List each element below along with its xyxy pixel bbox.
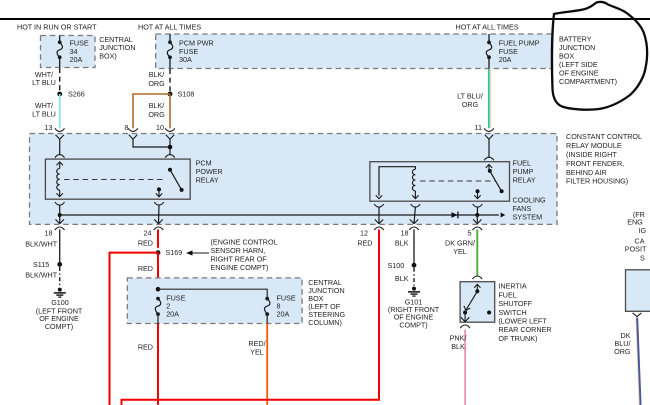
wire DK BLU/ORG down: [636, 318, 639, 405]
svg-text:(LOWER LEFT: (LOWER LEFT: [498, 317, 547, 326]
wire K2 output to bus node: [476, 207, 478, 215]
svg-text:10: 10: [156, 123, 164, 132]
svg-text:(INSIDE RIGHT: (INSIDE RIGHT: [566, 150, 617, 159]
pin 12 exit arc below module: [374, 227, 384, 230]
svg-text:FILTER HOUSING): FILTER HOUSING): [566, 177, 628, 186]
wire pin10 down to PCM relay: [169, 139, 171, 155]
wire BLK/WHT pin18L to S115: [59, 230, 61, 265]
pin 8 connector cup: [128, 128, 138, 131]
wire K1 output to pin 24: [158, 205, 161, 224]
svg-text:COLUMN): COLUMN): [308, 318, 342, 327]
wire BLK/WHT S115 to G100 (dash-dot): [59, 267, 61, 287]
wire BLK S100 to G101 (dash-dot): [413, 268, 415, 286]
svg-text:INERTIA: INERTIA: [498, 282, 526, 291]
svg-text:20A: 20A: [166, 310, 179, 319]
connector C? box right edge: [626, 270, 650, 312]
pin 13 connector cup: [55, 128, 65, 131]
K1 switch output contact: [157, 187, 161, 191]
fuse FUEL PUMP wire stub top: [488, 34, 490, 42]
K1 switch common contact: [168, 168, 172, 172]
svg-text:SYSTEM: SYSTEM: [513, 212, 543, 221]
inertia switch top contact: [475, 289, 479, 293]
svg-text:5: 5: [468, 229, 472, 238]
svg-text:BLK: BLK: [395, 274, 409, 283]
svg-text:BLK: BLK: [395, 239, 409, 248]
wire RED pin24 to S169: [157, 230, 159, 253]
K2 switch entry arrow (up): [486, 165, 492, 170]
K2 switch blade: [490, 171, 502, 191]
pin 18R exit arc below module: [409, 227, 419, 230]
constant control relay module dashed enclosure: [30, 134, 558, 225]
wire BLK pin18R to S100: [413, 230, 415, 266]
fuse F2: [156, 297, 160, 301]
svg-text:FUEL: FUEL: [498, 290, 516, 299]
relay K1 PCM POWER RELAY box: [45, 159, 190, 199]
pin 8 male chevron inside module: [129, 135, 137, 140]
K1 coil exit arc below box: [55, 202, 65, 205]
svg-text:LT BLU: LT BLU: [32, 78, 56, 87]
svg-text:RELAY: RELAY: [196, 176, 219, 185]
wire RED branch S169 left and down: [110, 253, 159, 405]
pin 18L exit arc below module: [55, 227, 65, 230]
wire RED pin12 down and across bottom: [122, 230, 380, 405]
wire K2 coil to pin 18: [414, 207, 415, 224]
inertia switch exit arc below box: [460, 325, 470, 328]
svg-text:OF TRUNK): OF TRUNK): [498, 334, 537, 343]
pin 10 male chevron inside module: [166, 135, 174, 140]
ground G100: [58, 288, 62, 292]
svg-text:IG: IG: [639, 226, 647, 235]
K1 mechanical link (dashed): [64, 179, 164, 181]
wire pin11 to fuel pump relay: [488, 139, 490, 158]
svg-text:REAR CORNER: REAR CORNER: [498, 325, 551, 334]
relay K2 FUEL PUMP RELAY box: [370, 162, 510, 202]
K1 coil entry arrow (up): [57, 162, 63, 169]
inertia switch blade with arrow: [466, 291, 477, 309]
svg-text:SWITCH: SWITCH: [498, 308, 526, 317]
K2 output arrow (down): [474, 193, 480, 199]
splice node S100: [412, 263, 417, 268]
svg-text:COMPT): COMPT): [45, 322, 73, 331]
splice node S108: [168, 92, 173, 97]
wire pin8 L to junction: [133, 139, 170, 147]
svg-text:COMPT): COMPT): [399, 321, 427, 330]
wire RED S169 down to CJB: [157, 253, 159, 278]
K2 switch common contact: [488, 169, 492, 173]
inertia fuel shutoff switch box: [460, 282, 495, 323]
svg-text:ORG: ORG: [148, 110, 165, 119]
bus arrow to cooling fans: [501, 213, 506, 218]
pin 13 male chevron inside module: [56, 135, 64, 140]
fuse F34: [58, 40, 62, 44]
pin 11 connector cup: [484, 128, 494, 131]
K2 feed exit arc below box: [374, 204, 384, 207]
svg-text:20A: 20A: [499, 55, 512, 64]
inertia switch lower contact: [463, 311, 467, 315]
svg-text:COMPARTMENT): COMPARTMENT): [559, 77, 617, 86]
svg-text:12: 12: [360, 229, 368, 238]
K1 output arrow (down): [156, 191, 162, 197]
fuse PCM PWR: [168, 40, 172, 44]
wire fuse2 to CJB box bottom: [157, 314, 159, 323]
pin 11 male chevron inside module: [485, 135, 493, 140]
pin 5 exit arc below module: [473, 227, 483, 230]
wire RED/YEL fuse8 down to bottom (orange): [266, 324, 268, 405]
wire fuse8 to CJB box bottom: [266, 314, 268, 323]
wire LT BLU/ORG fuse to pin 11 (teal w/ orange stripe): [489, 69, 491, 129]
wire bus node to pin 5: [476, 215, 478, 224]
inertia switch entry arrow (up): [474, 284, 480, 291]
K2 coil exit arrow (down): [412, 191, 418, 199]
svg-text:LT BLU: LT BLU: [32, 110, 56, 119]
svg-text:S115: S115: [33, 260, 49, 269]
fuse FUEL PUMP wire stub bottom: [488, 57, 490, 68]
wire pin13 to PCM relay: [59, 139, 61, 155]
wire K1 coil to bus/pin18: [59, 205, 61, 224]
svg-text:ENGINE COMPT): ENGINE COMPT): [211, 263, 269, 272]
svg-text:BLK: BLK: [451, 342, 465, 351]
wire CJB internal feed to fuse 2: [157, 278, 159, 299]
svg-text:30A: 30A: [179, 55, 192, 64]
svg-text:YEL: YEL: [250, 348, 264, 357]
K1 coil: [57, 169, 60, 191]
svg-text:RED: RED: [138, 264, 153, 273]
svg-text:BLK/WHT: BLK/WHT: [25, 240, 58, 249]
pin 18L exit chevron: [56, 219, 64, 223]
K2 feed exit arrow (down): [376, 195, 382, 198]
wire BLK/ORG S108 to pin 10 (brown): [169, 94, 171, 128]
K2 mechanical link (dashed): [420, 180, 495, 182]
node junction pin8/pin10: [168, 145, 173, 150]
inertia switch entry arc: [473, 276, 483, 279]
svg-text:FRONT FENDER,: FRONT FENDER,: [566, 159, 624, 168]
wire RED fuse2 down to bottom: [157, 324, 159, 405]
svg-text:24: 24: [144, 229, 152, 238]
K2 coil exit arc below box: [411, 204, 421, 207]
node bus junction pin 5: [475, 213, 479, 217]
splice node S266: [57, 92, 62, 97]
splice node S115: [57, 262, 62, 267]
svg-text:13: 13: [45, 123, 53, 132]
pin 24 exit chevron: [154, 219, 162, 223]
pin 10 connector cup: [165, 128, 175, 131]
wire BLK/ORG S108 to pin 8 (brown L): [133, 94, 170, 128]
K2 switch entry arc: [484, 157, 494, 160]
K2 coil: [412, 169, 415, 191]
callout ENGINE CONTROL SENSOR HARN arrow: [188, 252, 209, 254]
fuse PCM PWR wire stub top: [169, 34, 171, 42]
PCM relay switch entry arc: [165, 155, 175, 158]
central junction box (bottom) dashed enclosure: [127, 278, 302, 324]
svg-text:ORG: ORG: [614, 347, 631, 356]
svg-text:8: 8: [125, 123, 129, 132]
node bus junction below K1 coil: [58, 213, 62, 217]
svg-text:18: 18: [45, 229, 53, 238]
svg-text:HOT IN RUN OR START: HOT IN RUN OR START: [17, 23, 97, 32]
battery junction box callout blob: [552, 2, 647, 110]
svg-text:20A: 20A: [277, 310, 290, 319]
wire WHT/LT BLU S266 to pin 13 (light blue): [59, 94, 61, 128]
pin 24 exit arc below module: [154, 227, 164, 230]
fuse F34 wire stub top: [59, 36, 61, 43]
svg-text:G100: G100: [51, 298, 69, 307]
svg-text:HOT AT ALL TIMES: HOT AT ALL TIMES: [456, 23, 519, 32]
fuse PCM PWR wire stub bottom: [169, 57, 171, 68]
svg-text:S169: S169: [166, 248, 183, 257]
svg-text:BEHIND AIR: BEHIND AIR: [566, 168, 607, 177]
inertia switch exit chevron: [461, 315, 469, 322]
wire K2 feed to pin 12: [378, 207, 380, 224]
svg-text:ENG: ENG: [627, 217, 643, 226]
svg-text:BLK/: BLK/: [149, 70, 165, 79]
wire branch to fuse 8: [158, 289, 267, 298]
svg-text:RED: RED: [138, 239, 153, 248]
diode D1 on bus: [452, 212, 458, 218]
svg-text:18: 18: [401, 229, 409, 238]
wire PNK/BLK inertia switch down: [464, 330, 466, 405]
K1 output exit arc below box: [154, 202, 164, 205]
svg-text:RED: RED: [138, 343, 153, 352]
svg-text:11: 11: [475, 123, 482, 132]
svg-text:RED: RED: [357, 239, 372, 248]
splice node S169: [153, 248, 163, 258]
svg-text:RELAY: RELAY: [513, 176, 536, 185]
right box exit chevron: [633, 313, 642, 317]
fuse FUEL PUMP: [487, 41, 491, 45]
svg-text:20A: 20A: [70, 55, 83, 64]
svg-text:S266: S266: [68, 90, 85, 99]
top rule: [0, 18, 650, 20]
internal ground/feed bus wire: [60, 214, 499, 216]
wire BLK/ORG fuse to S108 (dashed black): [169, 69, 171, 94]
svg-text:POSIT: POSIT: [625, 245, 647, 254]
pin 5 exit chevron: [473, 219, 481, 223]
svg-text:CONSTANT CONTROL: CONSTANT CONTROL: [566, 132, 642, 141]
svg-text:HOT AT ALL TIMES: HOT AT ALL TIMES: [138, 23, 201, 32]
svg-text:BLK/: BLK/: [149, 101, 165, 110]
svg-text:S108: S108: [178, 90, 195, 99]
PCM relay top-left entry arc: [55, 155, 65, 158]
svg-text:ORG: ORG: [148, 79, 165, 88]
K2 coil top wire L: [379, 167, 415, 196]
pin 18R exit chevron: [410, 219, 418, 223]
K2 output exit arc below box: [473, 204, 483, 207]
battery junction box dashed enclosure: [156, 34, 552, 69]
wire DK GRN/YEL pin5 to inertia switch: [476, 230, 478, 277]
K1 coil exit arrow (down): [57, 190, 63, 197]
inertia switch aux contact: [487, 311, 491, 315]
fuse F34 wire stub bottom: [59, 57, 61, 67]
central junction box (top) dashed enclosure: [41, 36, 96, 68]
fuse F8: [265, 297, 269, 301]
wire WHT/LT BLU fuse34 to S266 (dashed): [59, 68, 61, 94]
svg-text:YEL: YEL: [453, 247, 467, 256]
svg-text:BOX): BOX): [99, 52, 117, 61]
svg-text:BLK/WHT: BLK/WHT: [25, 270, 58, 279]
node junction fuse2/fuse8 branch: [156, 287, 161, 292]
K1 switch blade: [170, 170, 182, 190]
svg-text:RELAY MODULE: RELAY MODULE: [566, 141, 622, 150]
K2 switch output contact: [476, 189, 480, 193]
svg-text:SHUTOFF: SHUTOFF: [498, 299, 532, 308]
svg-text:S100: S100: [388, 261, 405, 270]
svg-text:ORG: ORG: [462, 100, 479, 109]
svg-text:S: S: [640, 254, 645, 263]
ground G101: [412, 287, 416, 291]
pin 12 exit chevron: [375, 219, 383, 223]
